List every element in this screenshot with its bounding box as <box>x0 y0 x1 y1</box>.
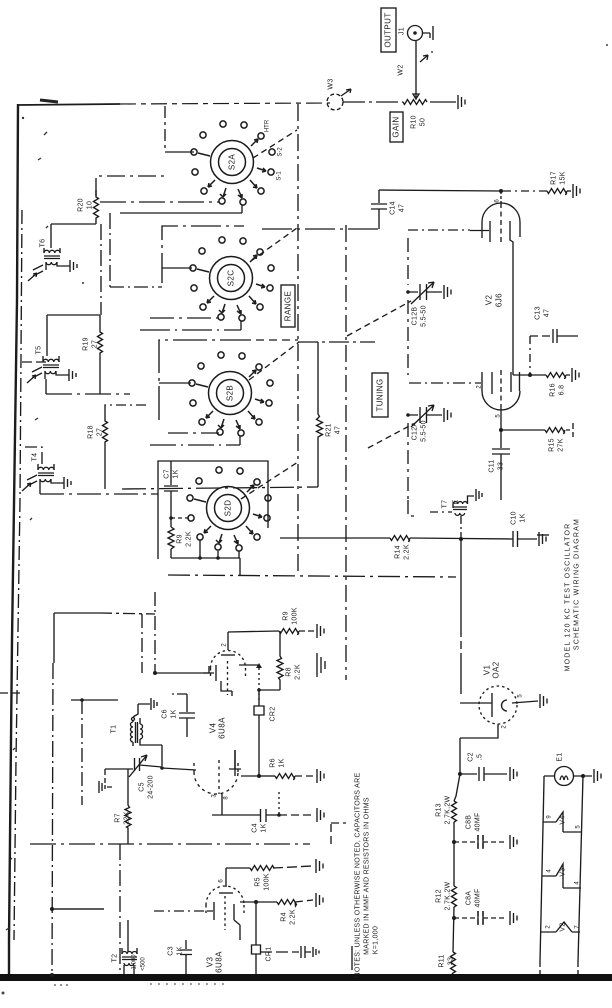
svg-text:T4: T4 <box>31 453 38 462</box>
wire plate supply y190 <box>379 190 501 191</box>
wire dash y488 R21 bottom bus <box>122 487 318 489</box>
resistor R14 <box>280 536 410 543</box>
wire V3 cathode to R4 <box>240 901 277 903</box>
svg-text:R18: R18 <box>87 425 94 439</box>
scan smudge marks along left border <box>40 100 58 102</box>
heater rail left <box>540 776 555 962</box>
cable W3 connector circle <box>327 94 343 110</box>
svg-text:2.2K: 2.2K <box>294 664 301 680</box>
V2 lower cathode bar <box>510 372 512 392</box>
T5 powdered core symbol <box>27 367 42 383</box>
svg-text:V4: V4 <box>208 723 217 734</box>
svg-text:R6: R6 <box>269 758 276 768</box>
V2 heater filament <box>541 922 580 932</box>
ground T7 <box>476 489 482 501</box>
junction dot C8B node <box>452 840 456 844</box>
capacitor C3 <box>180 940 192 974</box>
svg-text:6U8A: 6U8A <box>217 717 226 739</box>
wire R17 to ground <box>567 190 571 192</box>
capacitor C12B variable <box>408 284 442 300</box>
wire C2 node down to R13 <box>454 774 460 801</box>
svg-text:OUTPUT: OUTPUT <box>383 12 392 47</box>
V3 plate bar <box>219 892 233 894</box>
junction dot T1 node <box>160 766 164 770</box>
ground C12B <box>444 285 451 299</box>
V4 screen dash <box>227 661 229 695</box>
wire y287 into S2C <box>110 286 162 288</box>
svg-text:40MF: 40MF <box>474 812 481 831</box>
border frame left edge <box>9 104 18 975</box>
junction dot x52 y909 <box>50 907 54 911</box>
svg-text:GAIN: GAIN <box>391 116 400 137</box>
wire R13 to C8B node <box>453 822 455 886</box>
wire V1 feed vertical <box>460 577 462 694</box>
svg-text:10: 10 <box>86 201 93 209</box>
svg-text:R16: R16 <box>549 383 556 397</box>
ground R5 <box>316 859 323 873</box>
V3 screen dash <box>224 896 226 930</box>
svg-text:.5: .5 <box>476 754 483 760</box>
V1 anode lead <box>460 702 492 704</box>
border frame top edge <box>18 104 120 105</box>
svg-text:S2D: S2D <box>223 500 232 517</box>
transformer T1 <box>110 704 162 766</box>
wire W3 to R10 <box>343 101 403 103</box>
wire T6 top to y224 <box>51 224 96 248</box>
ground C4 <box>317 808 324 822</box>
wire S2A vertical x165 from top border <box>164 106 166 152</box>
wire drop R14 node to dash y577 <box>460 539 462 577</box>
capacitor C2 <box>460 767 507 781</box>
wire CR1 drop <box>255 902 257 945</box>
potentiometer R10 <box>403 100 427 105</box>
svg-text:C7: C7 <box>163 469 170 479</box>
capacitor C11 <box>492 430 510 500</box>
svg-text:R21: R21 <box>325 423 332 437</box>
svg-text:TUNING: TUNING <box>375 378 384 411</box>
ground T4 <box>60 477 71 489</box>
wire corner down from bus <box>239 558 241 575</box>
tube V3 envelope dome <box>206 886 244 905</box>
svg-text:C2: C2 <box>467 752 474 762</box>
wire R8 to CR2 node <box>259 689 280 691</box>
S2B shield box top dashes to partition <box>243 339 298 341</box>
svg-text:HTR: HTR <box>264 119 270 132</box>
svg-text:R8: R8 <box>285 667 292 677</box>
junction dot cathode node <box>499 428 503 432</box>
V2 lower triode envelope <box>482 372 520 410</box>
capacitor C4 <box>261 809 280 822</box>
gang dash C12B to shaft <box>347 301 411 336</box>
svg-text:OA2: OA2 <box>491 661 500 678</box>
wire plate lower to C11 node <box>500 409 502 430</box>
resistor R15 <box>545 428 565 435</box>
wire long dash y844 <box>30 843 310 845</box>
tube V2 upper triode envelope <box>482 203 520 238</box>
diode CR2 <box>254 690 264 776</box>
wire vertical x142 to grid bus <box>141 614 143 673</box>
V4 grid bar <box>203 665 216 681</box>
svg-text:R9: R9 <box>282 611 289 621</box>
svg-text:R15: R15 <box>548 438 555 452</box>
wire screen dotted down <box>258 668 260 700</box>
V3 heater filament <box>542 864 581 888</box>
wire horizontal y673 to V4 grid <box>155 672 209 674</box>
wire grid lower triode y383 <box>409 382 481 384</box>
ground R6 <box>295 775 314 777</box>
resistor R9 <box>168 527 174 549</box>
wire cathode y815 <box>212 814 260 816</box>
wire R18 top dash <box>105 405 150 414</box>
rotary switch S2B <box>189 352 273 436</box>
svg-text:2.7K,2W: 2.7K,2W <box>444 795 451 824</box>
wire cathode to R16 <box>513 372 546 375</box>
V4 cathode hook <box>221 681 232 696</box>
svg-text:V1: V1 <box>482 665 491 676</box>
svg-text:V3: V3 <box>205 957 214 968</box>
wire V4 screen lead <box>239 664 258 666</box>
wire S2B drop <box>239 436 241 445</box>
heater rail right <box>578 776 583 962</box>
lamp E1 <box>555 767 574 786</box>
junction dot CR2 top <box>257 688 261 692</box>
ground C12A <box>444 408 451 422</box>
svg-text:1K: 1K <box>176 946 183 955</box>
shield partition dash x346 <box>345 225 347 680</box>
V4 triode plate <box>229 750 241 769</box>
svg-text:R19: R19 <box>82 337 89 351</box>
junction dot y700 <box>80 698 84 702</box>
junction dot grid node <box>153 671 157 675</box>
wire R18 bottom to y489 bus <box>104 444 106 489</box>
junction dot C8A node <box>452 916 456 920</box>
wire S2C bottom y318 <box>150 317 220 319</box>
svg-text:V4: V4 <box>559 815 566 824</box>
ground small C5 area <box>99 781 112 793</box>
svg-text:40MF: 40MF <box>474 888 481 907</box>
W3 arrow tick <box>341 89 351 96</box>
resistor R13 <box>452 801 457 822</box>
resistor R5 <box>250 866 274 871</box>
svg-text:5.5-50: 5.5-50 <box>420 420 427 442</box>
capacitor C14 <box>371 190 387 229</box>
wire S2B bottom y433 <box>168 432 219 434</box>
svg-text:1K: 1K <box>172 469 179 478</box>
chassis dash line left inner <box>14 210 22 940</box>
svg-text:R11: R11 <box>438 954 445 967</box>
title tick mark <box>537 534 549 536</box>
transformer T5 <box>35 346 65 379</box>
tube V1 OA2 envelope (dotted circle) <box>479 686 517 724</box>
svg-text:33: 33 <box>497 462 504 470</box>
rotary switch S2D <box>187 467 271 551</box>
svg-text:C3: C3 <box>167 946 174 956</box>
wire R20 top <box>96 176 165 196</box>
wire R4 to ground <box>295 900 313 902</box>
svg-text:C13: C13 <box>534 306 541 320</box>
junction dot C7/R9 node <box>169 516 173 520</box>
wire S2C bottom y330 <box>140 329 241 331</box>
wire T4 top up <box>22 447 42 464</box>
wire T7 down to y539 <box>460 516 462 539</box>
wire C5 left drop <box>104 769 106 783</box>
wire grid upper triode y231 <box>408 229 470 231</box>
transformer T7 <box>441 496 474 515</box>
svg-text:2.7K,2W: 2.7K,2W <box>444 881 451 910</box>
S2B gang dash link <box>249 342 299 380</box>
wire V3 grid feed y910 <box>52 908 104 910</box>
svg-text:100K: 100K <box>291 607 298 625</box>
wire S2C drop <box>240 321 242 330</box>
wire R10 to ground <box>430 101 456 103</box>
C12A trimmer arrow <box>411 405 434 427</box>
GAIN label box <box>390 112 403 142</box>
wire left inner vertical x54 solid <box>53 613 55 663</box>
svg-text:W3: W3 <box>327 78 334 89</box>
svg-text:R10: R10 <box>410 115 417 129</box>
wire S2A bottom y213 <box>120 212 242 214</box>
capacitor C6 <box>179 694 195 737</box>
heater rail bottoms <box>540 962 578 974</box>
wire S2B bottom y445 <box>150 444 240 446</box>
svg-text:R13: R13 <box>435 803 442 817</box>
junction dot C4 <box>277 813 281 817</box>
junction dot V2 plate node <box>499 189 503 193</box>
svg-text:2.2K: 2.2K <box>403 544 410 560</box>
wire S2C left contact <box>162 267 192 269</box>
resistor R4 <box>277 900 297 907</box>
svg-text:47: 47 <box>543 309 550 317</box>
svg-text:R9: R9 <box>176 534 183 544</box>
junction dot E1 node <box>581 774 585 778</box>
svg-text:S2A: S2A <box>227 154 236 171</box>
svg-text:T1: T1 <box>110 725 117 734</box>
S2C gang dash link <box>251 228 297 261</box>
svg-text:27K: 27K <box>557 438 564 451</box>
capacitor C7 lead from box <box>170 461 172 485</box>
svg-text:V2: V2 <box>559 922 566 931</box>
svg-text:T7: T7 <box>441 500 448 509</box>
gang dash C12A to shaft <box>368 424 413 448</box>
wire E1 to ground <box>574 775 593 777</box>
svg-text:E1: E1 <box>556 752 563 761</box>
S2A gang dash link <box>253 130 297 158</box>
wire V4 plate up and right <box>228 631 279 650</box>
wire feeder vertical x110 <box>109 213 111 287</box>
svg-text:C14: C14 <box>389 201 396 215</box>
svg-text:J1: J1 <box>398 27 405 35</box>
ground T5 <box>65 369 76 381</box>
ground R15 partial <box>566 423 573 437</box>
wire V4 triode plate to R6 <box>235 750 259 776</box>
ground R4 <box>316 893 323 907</box>
svg-text:27: 27 <box>91 340 98 348</box>
capacitor C1 cathode bypass <box>260 951 299 953</box>
junction dot y558 b <box>216 556 220 560</box>
ground C2 <box>510 767 517 781</box>
wire to R6 <box>259 775 275 777</box>
resistor R19 <box>98 315 103 356</box>
J1 shell bar <box>423 26 434 40</box>
svg-text:50: 50 <box>419 118 426 126</box>
svg-text:47: 47 <box>334 426 341 434</box>
border frame bottom thick bar <box>0 974 612 981</box>
resistor R21 <box>317 342 323 487</box>
svg-text:R5: R5 <box>254 877 261 887</box>
ground R16 <box>566 368 579 382</box>
V4 triode grid dash <box>218 760 220 794</box>
tick mark y693 left border <box>0 692 20 694</box>
wire long dash y575 to V1 drop <box>168 575 456 577</box>
svg-text:RANGE: RANGE <box>283 291 292 321</box>
svg-text:6U8A: 6U8A <box>214 951 223 973</box>
svg-text:C10: C10 <box>510 511 517 525</box>
svg-text:T6: T6 <box>39 239 46 248</box>
transformer T4 <box>31 453 60 487</box>
ground R9 <box>299 630 314 632</box>
ground mid bars <box>317 653 325 677</box>
wire S2A drop from contact to y213 <box>241 205 243 213</box>
S2D gang dash link <box>241 462 298 499</box>
S2B shield box wire <box>159 340 243 420</box>
svg-text:S-1: S-1 <box>276 171 282 181</box>
wire S2D bottom bus y558 <box>171 557 240 559</box>
tuning gang dash enclosure <box>408 238 415 516</box>
wire dot to S2D left contact (dashed) <box>171 517 190 519</box>
resistor R8 screen <box>277 631 283 690</box>
V1 cathode element <box>502 700 507 711</box>
ground V1 <box>540 694 547 708</box>
svg-text:<500: <500 <box>140 957 146 971</box>
T4 powdered core symbol <box>22 475 37 491</box>
resistor R12 <box>452 886 457 907</box>
svg-text:1K: 1K <box>170 709 177 718</box>
svg-text:100K: 100K <box>263 873 270 891</box>
ground E1 <box>594 769 601 783</box>
svg-text:R20: R20 <box>77 198 84 212</box>
svg-text:CR2: CR2 <box>269 707 276 722</box>
V4 plate bar <box>221 654 235 656</box>
svg-text:T2: T2 <box>111 954 118 963</box>
svg-text:6J6: 6J6 <box>494 293 503 307</box>
wire horizontal y909 <box>52 908 104 910</box>
T6 powdered core symbol <box>28 265 43 281</box>
wire T5 top up and right y315 <box>47 315 100 356</box>
wire y191 dashes to R17 <box>503 190 547 192</box>
ground R10 <box>458 95 465 109</box>
ground R17 <box>573 184 580 198</box>
V2 upper cathode <box>510 221 513 372</box>
transformer T6 <box>39 239 66 270</box>
svg-text:K=1,000: K=1,000 <box>372 926 379 954</box>
ground C8B <box>510 835 517 849</box>
svg-text:C5: C5 <box>138 782 145 792</box>
svg-text:24-200: 24-200 <box>147 775 154 799</box>
svg-text:6.8: 6.8 <box>558 385 565 396</box>
junction dot R6 node <box>257 774 261 778</box>
svg-text:C4: C4 <box>251 823 258 833</box>
svg-text:S2B: S2B <box>225 385 234 401</box>
tube V4 triode envelope (dashed) <box>194 772 238 794</box>
wire S2D contact drops <box>200 540 239 558</box>
capacitor C8A <box>454 911 507 925</box>
wire S2A left contact y152 <box>165 151 194 153</box>
wire C7 to R9 <box>170 491 172 527</box>
wire T4 bottom bus y494 to S2D box <box>40 487 158 494</box>
capacitor C8B <box>454 835 507 849</box>
wire R9 bottom to bus y558 <box>170 549 172 558</box>
wire T5 link down border <box>22 361 47 363</box>
shield dash box V3 left <box>119 844 121 974</box>
wire plate dot to tube <box>500 191 502 203</box>
shield partition dash x298 <box>297 104 299 575</box>
svg-text:47: 47 <box>398 204 405 212</box>
wire R12 to C8A node <box>453 907 454 952</box>
wire S2A bottom contacts y202 <box>100 201 219 203</box>
svg-text:CR1: CR1 <box>265 947 272 962</box>
R10 wiper arrow to J1 <box>413 41 419 99</box>
svg-text:2.2K: 2.2K <box>185 531 192 547</box>
svg-text:R17: R17 <box>550 171 557 185</box>
wire dotted C4 up <box>278 792 280 815</box>
wire S2B left contact <box>159 382 191 384</box>
V4 triode cathode down <box>221 794 223 815</box>
resistor R7 <box>125 769 131 844</box>
ground T6 <box>66 260 77 272</box>
svg-text:R4: R4 <box>280 912 287 922</box>
resistor R18 <box>103 414 108 444</box>
C12B trimmer arrow <box>411 282 434 304</box>
diode CR1 <box>252 945 261 974</box>
V3 grid bar <box>207 902 214 920</box>
svg-text:W2: W2 <box>397 64 404 75</box>
V4 heater filament <box>543 812 582 832</box>
svg-text:R14: R14 <box>394 545 401 559</box>
rotary switch S2C <box>190 237 274 321</box>
ground small C6 <box>138 698 157 710</box>
junction dot x52 y975 <box>50 973 54 977</box>
svg-text:T5: T5 <box>35 346 42 355</box>
wire feeder vertical x101 <box>100 224 102 315</box>
capacitor C5 trimmer <box>105 758 162 771</box>
C12A junction dot <box>406 413 410 417</box>
rotary switch S2A <box>191 121 275 205</box>
wire horizontal y700 <box>71 699 118 701</box>
svg-text:R7: R7 <box>114 813 121 823</box>
svg-text:S-2: S-2 <box>277 147 283 157</box>
wire y342 cross bus <box>298 341 375 343</box>
wire vertical x82 down <box>81 700 83 805</box>
tube V4 pentode envelope (dotted dome) <box>211 651 246 669</box>
junction dot R4/CR1 node <box>254 900 258 904</box>
transformer T2 <box>111 920 137 974</box>
V1 cathode lead to ground <box>512 701 538 703</box>
wire T7 left dash <box>430 511 452 513</box>
svg-text:S2C: S2C <box>226 270 235 287</box>
svg-text:C8A: C8A <box>465 891 472 906</box>
wire horizontal y613 <box>54 612 100 614</box>
S2D shield box wire <box>158 461 268 559</box>
wire to R15 <box>501 429 545 431</box>
capacitor C13 feedback <box>530 335 552 337</box>
svg-text:R12: R12 <box>435 889 442 903</box>
svg-text:C8B: C8B <box>465 815 472 830</box>
OUTPUT label box <box>381 8 396 52</box>
wire y229 from S2A area to C14 <box>262 228 379 230</box>
svg-text:2.2K: 2.2K <box>289 909 296 925</box>
wire R19 bottom y394 bus <box>46 379 130 394</box>
capacitor C7 <box>164 486 178 491</box>
